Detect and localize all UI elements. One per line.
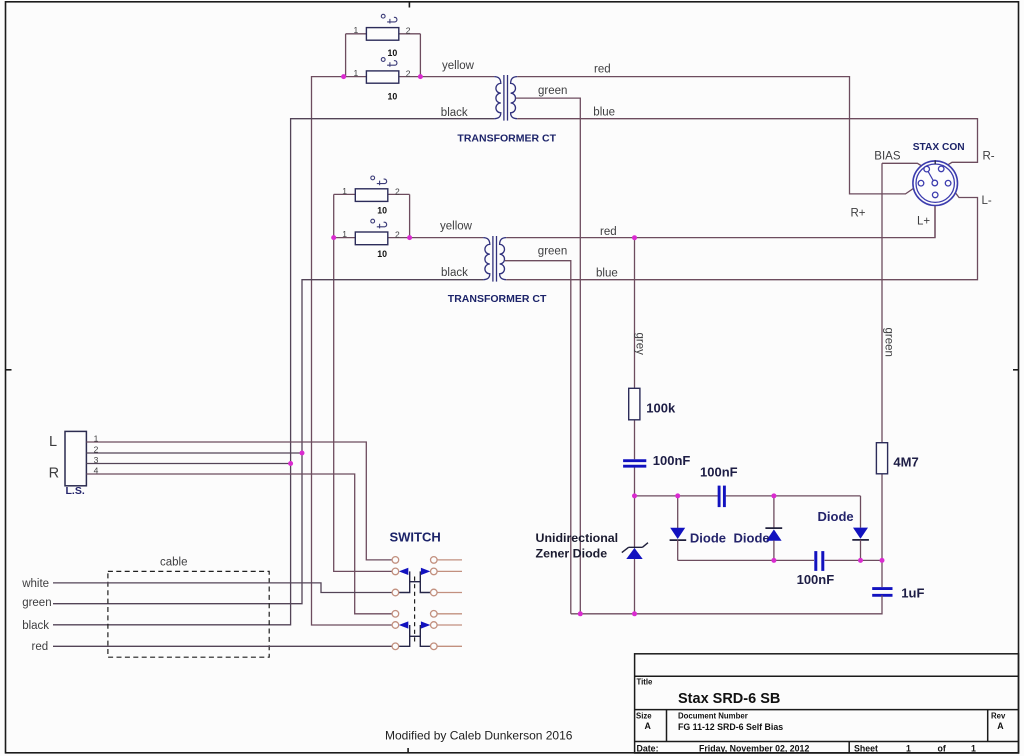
svg-text:red: red <box>594 64 611 76</box>
svg-text:L-: L- <box>982 195 992 207</box>
svg-text:R+: R+ <box>851 207 866 219</box>
svg-text:10: 10 <box>377 206 387 216</box>
zener diode wire upper <box>634 496 636 547</box>
svg-text:R: R <box>49 466 59 482</box>
junction node A left <box>632 493 637 498</box>
svg-text:Sheet: Sheet <box>854 744 878 754</box>
resistor 4M7 body <box>876 443 887 474</box>
zener diode wire lower <box>634 559 636 614</box>
switch contact circles left column <box>392 557 399 650</box>
resistor R4 pin1 stub <box>334 237 356 239</box>
svg-text:Rev: Rev <box>991 712 1006 721</box>
svg-text:Stax SRD-6 SB: Stax SRD-6 SB <box>678 691 780 707</box>
svg-text:Zener Diode: Zener Diode <box>536 547 608 561</box>
svg-text:blue: blue <box>593 107 615 119</box>
resistor R3 pin1 stub <box>334 193 356 195</box>
svg-text:2: 2 <box>406 69 411 79</box>
svg-text:1: 1 <box>971 744 976 754</box>
wire BIAS horizontal and diagonal to pin <box>882 163 927 169</box>
junction pair1 left <box>341 74 346 79</box>
wire L+ vertical to pin <box>934 198 936 238</box>
svg-text:1: 1 <box>342 186 347 196</box>
svg-text:2: 2 <box>395 230 400 240</box>
svg-text:L: L <box>49 434 57 450</box>
svg-text:10: 10 <box>388 91 398 101</box>
resistor R1 pin1 stub <box>346 33 367 35</box>
wire red cable to switch row6 <box>53 645 392 647</box>
STAX pin R- <box>938 166 944 172</box>
node rail upper <box>635 495 861 497</box>
switch contact circles right column <box>431 557 438 650</box>
switch pole bracket lower right <box>420 625 430 646</box>
svg-text:2: 2 <box>395 186 400 196</box>
svg-text:black: black <box>441 267 468 279</box>
resistor R4 body 10 <box>355 232 388 245</box>
node rail lower <box>678 559 882 561</box>
svg-text:Modified by Caleb Dunkerson 20: Modified by Caleb Dunkerson 2016 <box>385 729 573 743</box>
resistor R2 pin1 stub <box>344 76 367 78</box>
frame tick right <box>1013 369 1019 371</box>
wire L.S. pin3 <box>86 463 290 465</box>
junction LS pin3 <box>288 461 293 466</box>
svg-text:Diode: Diode <box>818 509 854 524</box>
wire red2 from T2 to L+ <box>506 198 935 238</box>
wire L.S. pin1 to switch row1 <box>86 442 392 560</box>
wire blue1 from T1 to R- <box>517 119 977 169</box>
svg-text:yellow: yellow <box>442 60 475 72</box>
wire black1 from T1 to vertical <box>53 119 494 625</box>
svg-text:yellow: yellow <box>440 221 473 233</box>
resistor R2 adjust symbol <box>381 58 397 67</box>
wire L.S. pin2 <box>86 452 302 454</box>
capacitor C2 100nF plates <box>719 486 724 508</box>
junction node A D2 <box>771 493 776 498</box>
svg-text:black: black <box>441 107 468 119</box>
wire black2 from T2 to green cable wire <box>53 280 483 604</box>
STAX connector key tick <box>934 160 936 164</box>
resistor pair 2 right bracket wire <box>409 194 411 237</box>
wire green2 from T2 tap to bottom rail <box>505 261 571 614</box>
resistor R1 adjust symbol <box>381 14 397 23</box>
wire grey net from red2 junction down <box>634 238 636 496</box>
svg-text:Friday, November 02, 2012: Friday, November 02, 2012 <box>699 744 809 754</box>
wire yellow1 to transformer T1 <box>420 76 494 78</box>
junction node B 4M7 <box>880 558 885 563</box>
resistor R2 pin2 stub <box>399 76 421 78</box>
resistor pair 2 left bracket wire <box>333 194 335 237</box>
resistor pair 1 right bracket wire <box>419 34 421 77</box>
title block outline <box>635 654 1019 753</box>
svg-text:Document Number: Document Number <box>678 712 748 721</box>
STAX pin L- <box>945 180 951 186</box>
junction red2 grey tap <box>632 235 637 240</box>
STAX pin R+ <box>918 180 924 186</box>
switch arrow upper right <box>421 568 431 575</box>
svg-text:4: 4 <box>94 465 99 475</box>
resistor R3 body 10 <box>355 189 388 202</box>
connector L.S. body <box>65 431 86 485</box>
frame tick left <box>6 369 12 371</box>
switch linkage tick upper <box>410 581 421 583</box>
svg-text:white: white <box>21 578 49 590</box>
wire yellow net to switch row5 <box>312 77 393 625</box>
transformer T2 core <box>492 236 494 282</box>
wire BIAS net vertical <box>881 163 883 587</box>
switch arrow lower right <box>421 621 431 628</box>
junction bottom rail zener <box>632 611 637 616</box>
STAX pin center <box>932 180 938 186</box>
switch right stub wires <box>437 560 462 646</box>
wire yellow2 to transformer T2 <box>410 237 484 239</box>
resistor R1 pin2 stub <box>399 33 421 35</box>
wire green1 from T1 tap down to bottom rail <box>516 98 581 614</box>
junction pair2 right <box>407 235 412 240</box>
switch pole bracket upper left <box>399 571 410 592</box>
frame tick top <box>408 2 410 8</box>
svg-text:blue: blue <box>596 267 618 279</box>
zener diode Z1 <box>622 543 648 559</box>
capacitor C3 100nF plates <box>816 551 823 571</box>
svg-text:2: 2 <box>94 444 99 454</box>
svg-text:cable: cable <box>160 557 188 569</box>
svg-text:L.S.: L.S. <box>66 485 85 497</box>
STAX connector inner circle <box>916 164 954 202</box>
diode D3 <box>852 496 869 561</box>
svg-text:100nF: 100nF <box>653 453 691 468</box>
transformer T1 secondary winding <box>511 77 518 119</box>
svg-text:2: 2 <box>406 26 411 36</box>
switch pole bracket lower left <box>399 625 410 646</box>
wire pair2 left down to switch row2 <box>334 238 392 572</box>
svg-text:green: green <box>883 328 895 357</box>
svg-text:Size: Size <box>636 712 652 721</box>
svg-text:green: green <box>538 246 567 258</box>
STAX connector internal link wire <box>928 171 934 181</box>
switch linkage dashed line <box>414 577 416 643</box>
diode D1 <box>670 496 687 561</box>
svg-text:L+: L+ <box>917 215 930 227</box>
junction pair1 right <box>418 74 423 79</box>
frame tick bottom <box>407 748 409 753</box>
resistor R1 body 10 <box>366 28 398 41</box>
junction bottom rail green1 <box>578 611 583 616</box>
svg-text:STAX CON: STAX CON <box>913 142 965 153</box>
resistor R4 adjust symbol <box>371 219 387 228</box>
svg-text:1: 1 <box>354 68 359 78</box>
svg-text:1: 1 <box>94 433 99 443</box>
svg-text:red: red <box>600 226 617 238</box>
svg-text:black: black <box>22 620 49 632</box>
svg-text:R-: R- <box>983 150 995 162</box>
svg-text:1: 1 <box>342 229 347 239</box>
svg-text:1: 1 <box>906 744 911 754</box>
svg-text:green: green <box>538 85 567 97</box>
svg-text:Diode: Diode <box>734 531 770 546</box>
svg-text:1uF: 1uF <box>901 585 924 600</box>
resistor 100k body <box>629 388 640 420</box>
svg-text:4M7: 4M7 <box>893 454 918 469</box>
STAX pin L+ <box>932 192 938 198</box>
svg-text:grey: grey <box>634 333 646 356</box>
wire white to switch row3 <box>53 583 392 593</box>
STAX pin BIAS <box>924 166 930 172</box>
transformer T1 primary winding <box>494 77 501 119</box>
svg-text:green: green <box>22 597 51 609</box>
junction node A D1 <box>675 493 680 498</box>
svg-text:SWITCH: SWITCH <box>389 530 440 545</box>
svg-text:A: A <box>997 721 1004 731</box>
svg-text:10: 10 <box>388 48 398 58</box>
svg-text:Diode: Diode <box>690 531 726 546</box>
svg-text:10: 10 <box>377 249 387 259</box>
cable box <box>108 571 269 657</box>
junction node B D2 <box>771 558 776 563</box>
junction pair2 left <box>331 235 336 240</box>
svg-text:TRANSFORMER CT: TRANSFORMER CT <box>448 293 547 305</box>
svg-text:3: 3 <box>94 455 99 465</box>
svg-text:TRANSFORMER CT: TRANSFORMER CT <box>457 132 556 144</box>
svg-text:FG 11-12 SRD-6 Self Bias: FG 11-12 SRD-6 Self Bias <box>678 722 783 732</box>
transformer T2 primary winding <box>483 238 490 280</box>
svg-text:1: 1 <box>354 25 359 35</box>
STAX connector outer circle <box>913 161 958 206</box>
switch arrow lower left <box>399 621 409 628</box>
bottom rail wire <box>571 595 882 614</box>
switch arrow upper left <box>399 568 409 575</box>
svg-text:Date:: Date: <box>637 744 659 754</box>
wire red1 from T1 to R+ <box>517 77 921 194</box>
resistor pair 1 left bracket wire <box>345 34 347 77</box>
switch linkage tick lower <box>410 635 421 637</box>
diode D2 <box>765 496 782 561</box>
capacitor C1 100nF plates <box>623 461 646 467</box>
svg-text:BIAS: BIAS <box>874 150 901 162</box>
capacitor C4 1uF plates <box>872 589 892 596</box>
junction node B D3 <box>858 558 863 563</box>
svg-text:A: A <box>645 721 652 731</box>
svg-text:100k: 100k <box>646 400 676 415</box>
resistor R2 body 10 <box>366 71 398 83</box>
wire blue2 from T2 to L- <box>506 183 977 280</box>
transformer T2 secondary winding <box>500 238 507 280</box>
svg-text:of: of <box>938 744 946 754</box>
resistor R3 adjust symbol <box>371 176 387 185</box>
switch pole bracket upper right <box>420 571 430 592</box>
svg-text:Title: Title <box>637 678 654 687</box>
resistor R3 pin2 stub <box>388 193 410 195</box>
svg-text:100nF: 100nF <box>797 572 835 587</box>
svg-text:Unidirectional: Unidirectional <box>536 531 619 545</box>
transformer T1 core <box>503 75 505 121</box>
resistor R4 pin2 stub <box>388 237 410 239</box>
wire L.S. pin4 to switch row4 <box>86 474 392 614</box>
svg-text:red: red <box>32 641 49 653</box>
svg-text:100nF: 100nF <box>700 464 738 479</box>
junction LS pin2 <box>300 451 305 456</box>
